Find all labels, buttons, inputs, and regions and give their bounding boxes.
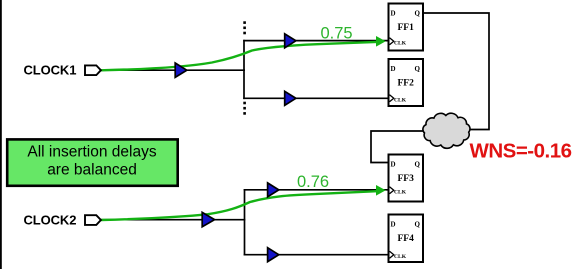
wire branch to buffer B3 (lower)	[243, 97, 285, 99]
svg-text:Q: Q	[415, 65, 421, 73]
wire B5 to FF3 CLK	[278, 189, 389, 191]
svg-text:Q: Q	[415, 221, 421, 229]
callout box: insertion delays balanced	[7, 139, 178, 185]
buffer B6	[268, 248, 279, 262]
wire cloud to FF3 D	[371, 131, 427, 163]
ellipsis dots below branch (more fanout)	[243, 102, 246, 115]
svg-text:D: D	[391, 221, 396, 229]
wire B6 to FF4 CLK	[278, 254, 389, 256]
wire branch to buffer B2 (upper)	[243, 40, 285, 42]
svg-text:FF3: FF3	[398, 174, 415, 184]
svg-text:are balanced: are balanced	[47, 162, 137, 179]
wire CLOCK2 port to buffer B4	[100, 219, 203, 221]
flip-flop FF3	[389, 155, 424, 202]
flip-flop FF4	[389, 215, 424, 263]
wire B1 to branch node	[186, 69, 245, 71]
svg-text:CLK: CLK	[394, 190, 407, 196]
branch vertical (CLOCK1 clock tree)	[243, 40, 245, 99]
buffer B1	[175, 63, 187, 77]
wire CLOCK1 port to buffer B1	[100, 69, 176, 71]
svg-text:D: D	[391, 65, 396, 73]
svg-text:D: D	[391, 161, 396, 169]
input port CLOCK1	[85, 65, 101, 75]
green arrowhead into FF3 CLK	[376, 185, 386, 196]
wire FF1 Q to cloud	[424, 13, 490, 130]
branch vertical (CLOCK2 clock tree)	[244, 189, 246, 256]
svg-text:WNS=-0.16: WNS=-0.16	[470, 140, 572, 163]
svg-text:All insertion delays: All insertion delays	[27, 144, 156, 161]
svg-text:Q: Q	[415, 161, 421, 169]
input port CLOCK2	[85, 215, 101, 225]
slide edge line	[0, 0, 2, 269]
svg-text:CLK: CLK	[394, 98, 407, 104]
svg-text:0.75: 0.75	[321, 24, 353, 42]
green clock path CLOCK2	[101, 191, 377, 220]
svg-text:CLK: CLK	[394, 41, 407, 47]
wire branch2 to buffer B5 (upper)	[244, 189, 269, 191]
flip-flop FF2	[389, 59, 424, 106]
svg-text:FF4: FF4	[398, 234, 415, 244]
flip-flop FF1	[389, 4, 424, 51]
wire branch2 to buffer B6 (lower)	[244, 254, 269, 256]
cloud (net / combinational logic)	[423, 113, 470, 148]
buffer B4	[202, 212, 214, 226]
svg-text:Q: Q	[415, 10, 421, 18]
svg-text:D: D	[391, 10, 396, 18]
svg-text:CLOCK1: CLOCK1	[24, 63, 77, 78]
buffer B5	[268, 183, 279, 197]
svg-text:0.76: 0.76	[297, 173, 329, 191]
svg-text:CLOCK2: CLOCK2	[24, 213, 77, 228]
svg-text:FF1: FF1	[398, 23, 415, 33]
svg-text:FF2: FF2	[398, 78, 415, 88]
wire B3 to FF2 CLK	[295, 97, 389, 99]
green arrowhead into FF1 CLK	[376, 36, 386, 47]
wire B4 to branch node 2	[213, 219, 245, 221]
buffer B2	[285, 34, 296, 48]
green clock path CLOCK1	[101, 42, 377, 70]
ellipsis dots above branch (more fanout)	[243, 21, 246, 34]
buffer B3	[285, 91, 296, 105]
svg-text:CLK: CLK	[394, 254, 407, 260]
wire B2 to FF1 CLK	[295, 40, 389, 42]
